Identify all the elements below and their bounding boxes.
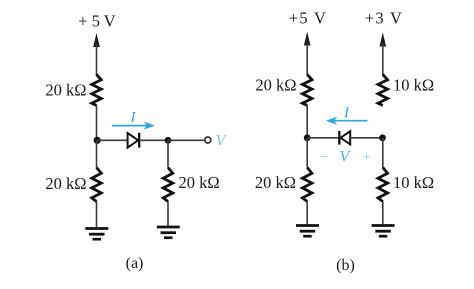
node D (b) xyxy=(379,134,386,141)
power supply arrow +3V (b) xyxy=(380,33,387,47)
diode D2 (b) xyxy=(339,131,350,145)
current I arrow (b) xyxy=(326,117,368,125)
wire diode to node D xyxy=(350,137,383,139)
power supply arrow (a) xyxy=(93,33,100,47)
svg-text:10 kΩ: 10 kΩ xyxy=(393,76,434,95)
ground (b right) xyxy=(372,226,395,237)
resistor 10k upper (b) xyxy=(378,75,388,106)
ground (b left) xyxy=(296,226,319,237)
resistor 20k lower-left (a) xyxy=(92,168,102,202)
svg-text:20 kΩ: 20 kΩ xyxy=(255,173,296,192)
svg-text:20 kΩ: 20 kΩ xyxy=(255,76,296,95)
node C (b) xyxy=(304,134,311,141)
wire node B down xyxy=(167,140,169,167)
svg-text:+5 V: +5 V xyxy=(289,9,328,28)
svg-text:I: I xyxy=(130,110,137,126)
output terminal circle (a) xyxy=(205,137,211,143)
svg-text:20 kΩ: 20 kΩ xyxy=(179,173,220,192)
wire node C to diode bar xyxy=(307,137,339,139)
svg-text:+: + xyxy=(362,150,372,166)
resistor 20k lower-right (a) xyxy=(163,168,173,202)
wire node B to output terminal xyxy=(168,139,205,141)
svg-text:10 kΩ: 10 kΩ xyxy=(393,173,434,192)
svg-text:20 kΩ: 20 kΩ xyxy=(45,174,86,193)
wire node D down xyxy=(382,138,384,168)
svg-text:I: I xyxy=(343,105,350,121)
wire diode cathode to node B xyxy=(140,139,169,141)
node A (a) xyxy=(94,137,101,144)
svg-text:(a): (a) xyxy=(126,255,144,272)
wire upper-left resistor to node C xyxy=(306,106,308,138)
node B (a) xyxy=(165,137,172,144)
wire to ground (a right) xyxy=(167,202,169,227)
svg-text:+ 5 V: + 5 V xyxy=(78,12,116,31)
diode D1 (a) xyxy=(128,133,140,148)
ground (a right) xyxy=(157,227,180,238)
current I arrow (a) xyxy=(112,122,155,130)
wire to ground (b left) xyxy=(306,202,308,226)
svg-text:20 kΩ: 20 kΩ xyxy=(45,81,86,100)
power supply arrow +5V (b) xyxy=(304,32,311,46)
resistor 20k upper (b) xyxy=(302,75,312,106)
resistor 20k lower (b) xyxy=(302,168,312,202)
wire to ground (a left) xyxy=(96,202,98,229)
wire node C down xyxy=(306,138,308,168)
svg-text:+3 V: +3 V xyxy=(365,9,404,28)
wire resistor to node A xyxy=(96,106,98,141)
ground (a left) xyxy=(85,229,108,240)
wire node A down xyxy=(96,140,98,167)
svg-text:(b): (b) xyxy=(336,257,355,274)
resistor 20k upper (a) xyxy=(92,75,102,106)
resistor 10k lower (b) xyxy=(378,168,388,202)
wire to ground (b right) xyxy=(382,202,384,226)
svg-text:−: − xyxy=(319,150,329,166)
wire node A to diode anode xyxy=(97,139,128,141)
